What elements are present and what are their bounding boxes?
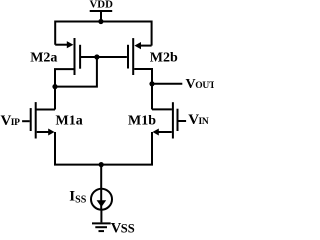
junction dot on mirror gate line [94,54,99,59]
wire: node A down to M1a drain [54,87,56,110]
wire: diode connection node A to gate line [55,58,97,87]
wire: M1b drain lead [152,108,172,110]
wire: VDD rail with left and right drops [55,22,151,46]
arrowhead: M1a source (points right) [48,129,54,136]
wire: current source to ground [100,210,102,223]
wire: M2b source lead [141,45,152,47]
wire: M2a drain lead and drop to node A [55,69,74,87]
svg-text:M2b: M2b [150,50,178,65]
wire: VDD stem [100,11,102,22]
wire: M2b drain lead and drop to VOUT node [134,69,152,84]
svg-text:M1b: M1b [128,114,156,129]
ground bar 2 [95,226,107,228]
wire: mirror gate line M2a to M2b [81,56,127,58]
wire: M2a source lead [55,44,68,46]
wire: M1b source lead [159,131,172,133]
arrowhead: ISS current direction (points down) [97,200,107,207]
wire: M1a drain lead [36,109,55,111]
svg-text:M1a: M1a [56,113,83,128]
transistor M1a [31,102,36,138]
svg-text:VDD: VDD [89,0,113,10]
svg-text:VSS: VSS [111,220,135,235]
transistor M2a [75,38,81,75]
transistor M2b [128,38,133,75]
node A junction dot (M2a drain / gate) [52,84,57,89]
junction dot on tail rail [99,162,104,167]
svg-text:M2a: M2a [30,50,57,65]
ground bar 1 [92,222,111,224]
wire: VOUT stub [152,83,182,85]
ground bar 3 [99,230,105,232]
VDD supply bar [90,10,113,12]
wire: VOUT node down to M1b drain [151,84,153,110]
wire: tail down through current source [100,165,102,210]
junction dot on VDD rail [98,19,103,24]
arrowhead: M2b source (points left) [134,42,141,49]
current source ISS circle [91,189,112,210]
arrowhead: M2a source (points right) [67,41,74,48]
wire: M1a source lead [37,131,49,133]
node VOUT junction dot [149,81,154,86]
wire: VIN gate lead [179,120,187,122]
arrowhead: M1b source (points left) [153,129,159,136]
transistor M1b [173,102,178,138]
wire: tail rail with source drops [55,132,152,165]
wire: VIP gate lead [22,120,30,122]
